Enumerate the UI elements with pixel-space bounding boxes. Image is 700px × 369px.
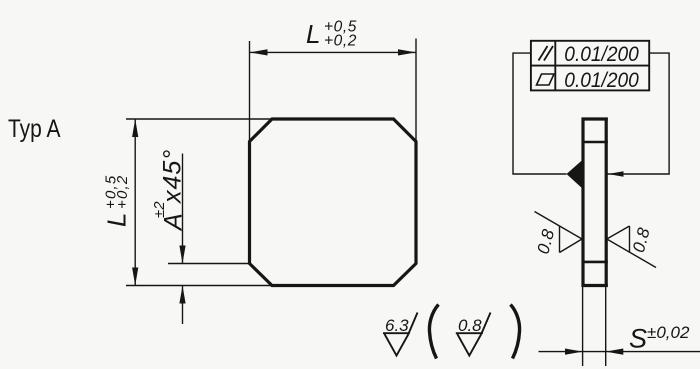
feature control frame vertical divider (554, 41, 556, 91)
parallelism symbol (539, 46, 554, 61)
dimension A lower tail line (182, 286, 184, 325)
parenthesis left (429, 305, 438, 359)
extension line top-right vertical (415, 39, 417, 142)
side view right edge (605, 118, 608, 288)
arrow A upper pointing down (179, 246, 185, 264)
svg-text:x45°: x45° (158, 149, 186, 204)
datum solid triangle (567, 159, 584, 190)
svg-text:6.3: 6.3 (385, 316, 409, 335)
side view bottom edge (582, 284, 608, 287)
arrow bottom of left L dim (132, 268, 138, 286)
text A ±2 x45° rotated (151, 149, 188, 232)
arrow S right pointing left (606, 349, 624, 355)
arrow S left pointing right (565, 349, 583, 355)
arrow top of left L dim (132, 119, 138, 137)
svg-text:±0,02: ±0,02 (647, 323, 690, 342)
feature control frame box (531, 41, 649, 91)
extension line chamfer level horizontal (168, 263, 251, 265)
extension line left top horizontal (126, 118, 272, 120)
svg-text:L: L (306, 19, 320, 49)
svg-text:Typ A: Typ A (8, 114, 61, 142)
arrow right of top L dim (398, 49, 416, 55)
svg-text:+0,2: +0,2 (324, 33, 357, 50)
extension line S right (605, 287, 607, 366)
parenthesis right (511, 305, 520, 359)
side view left edge (581, 118, 584, 288)
leader arrow at right surface (608, 171, 624, 177)
svg-text:0.01/200: 0.01/200 (564, 43, 639, 66)
extension line top-left vertical (249, 41, 251, 141)
dimension line S (539, 351, 700, 353)
front view octagon outline (250, 119, 417, 286)
text L left rotated (102, 175, 132, 227)
leader from frame left (513, 53, 567, 174)
roughness symbol right (607, 226, 656, 268)
side view top edge (582, 117, 608, 120)
dimension line L top (250, 51, 417, 53)
surface symbol 6.3 bar (383, 313, 418, 356)
svg-text:0.8: 0.8 (458, 316, 482, 335)
flatness symbol (537, 74, 555, 85)
extension line left bottom horizontal (126, 285, 272, 287)
arrow A lower pointing up (179, 286, 185, 304)
svg-text:0.01/200: 0.01/200 (564, 69, 639, 92)
leader from frame right (608, 53, 670, 174)
side view chamfer line bottom (582, 261, 608, 264)
extension line S left (582, 287, 584, 366)
side view chamfer line top (582, 141, 608, 144)
feature control frame horizontal divider (531, 65, 649, 67)
svg-text:L: L (102, 213, 132, 227)
surface symbol 0.8 bar (456, 313, 491, 356)
svg-text:+0,2: +0,2 (114, 175, 131, 209)
svg-text:S: S (629, 324, 647, 354)
arrow left of top L dim (250, 49, 268, 55)
roughness symbol left (535, 212, 583, 253)
dimension A upper tail line (182, 154, 184, 264)
dimension line L left vertical (134, 119, 136, 286)
